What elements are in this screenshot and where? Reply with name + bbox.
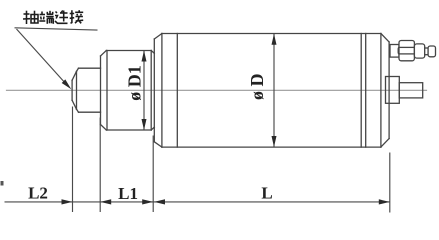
char 连 — [55, 11, 68, 24]
body chamfer bottom-right — [381, 139, 389, 148]
D1 chamfer bottom-right — [151, 127, 154, 130]
body inner left line — [161, 34, 163, 148]
body joint line — [176, 34, 178, 148]
leader line — [17, 29, 67, 85]
left edge artifact — [1, 181, 4, 186]
shaft tip edge — [76, 71, 78, 109]
arrow L left-pointing — [154, 199, 165, 204]
body right edge — [388, 42, 390, 139]
shaft tip corner top — [77, 68, 79, 71]
D1 inner right line — [150, 51, 152, 131]
D1 chamfer top-left — [101, 51, 107, 57]
leader arrowhead — [62, 79, 72, 89]
body left edge — [153, 39, 155, 142]
D1 top edge — [106, 50, 151, 52]
body bottom edge — [162, 146, 381, 148]
fitting nut middle band (wide) — [398, 47, 415, 54]
extension line 4 — [389, 153, 391, 213]
char 轴 — [23, 11, 38, 24]
dim D1 line — [143, 51, 145, 131]
shaft tip chamfer bottom — [72, 100, 76, 109]
body chamfer bottom-left — [154, 142, 162, 147]
extension line 2 — [99, 118, 101, 213]
body seam 1 — [360, 34, 362, 148]
shaft tip face — [71, 80, 73, 100]
svg-text:L1: L1 — [118, 184, 138, 203]
fitting nut flat line 2 — [399, 53, 414, 55]
arrow L1 right-pointing — [142, 199, 153, 204]
fitting stem — [390, 45, 399, 58]
D1 chamfer top-right — [151, 51, 154, 54]
shaft cylinder bottom — [79, 111, 101, 113]
top fitting — [390, 41, 436, 61]
D1 inner left line — [106, 51, 108, 131]
leader underline — [15, 28, 98, 30]
svg-text:L: L — [261, 184, 272, 203]
bottom dimension line — [5, 107, 390, 213]
D1 drum left edge — [100, 56, 102, 125]
arrow L2/L1 left-pointing — [100, 199, 111, 204]
dim D arrow down — [272, 136, 277, 147]
D1 bottom edge — [106, 129, 151, 131]
svg-text:ø D: ø D — [247, 74, 267, 101]
lower fitting — [386, 77, 423, 104]
arrow L2 right-pointing — [62, 199, 73, 204]
dim D1 arrow up — [142, 51, 147, 62]
svg-text:L2: L2 — [28, 184, 48, 203]
arrow L right-pointing — [379, 199, 390, 204]
fitting neck — [425, 48, 428, 55]
svg-text:ø D1: ø D1 — [124, 65, 144, 101]
D1 chamfer bottom-left — [101, 125, 107, 131]
shaft tip chamfer top — [72, 71, 76, 80]
body inner right line — [380, 34, 382, 148]
body chamfer top-left — [154, 34, 162, 40]
body seam 2 — [365, 34, 367, 148]
shaft cylinder top — [79, 67, 101, 69]
char 端 — [39, 11, 53, 24]
extension line 3 — [152, 136, 154, 213]
dim D arrow up — [272, 34, 277, 45]
lower stem — [399, 83, 422, 98]
fitting nut flat line 1 — [399, 46, 414, 48]
fitting knob — [428, 46, 435, 57]
lower block — [386, 77, 400, 104]
fitting nut body — [399, 41, 414, 61]
shaft tip corner bottom — [77, 109, 79, 112]
dim D line — [273, 34, 275, 147]
leader label 轴端连接 (hand strokes) — [23, 10, 83, 24]
char 接 — [70, 10, 84, 23]
centerline — [7, 89, 427, 91]
body top edge — [162, 33, 381, 35]
fitting mid section — [414, 44, 424, 58]
dim D1 arrow down — [142, 119, 147, 130]
extension line 1 — [72, 107, 74, 213]
body chamfer top-right — [381, 34, 389, 43]
